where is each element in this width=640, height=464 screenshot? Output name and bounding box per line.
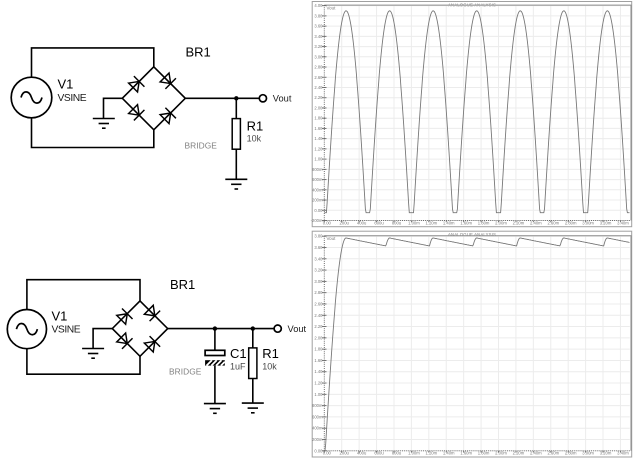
svg-text:2.60m: 2.60m: [547, 220, 559, 225]
voltage source V1 (circuit 2): [7, 310, 46, 349]
diode (BR1 bottom-right, anode bottom corner, cathode right corner) (circuit 2): [144, 336, 161, 353]
svg-text:1.20: 1.20: [314, 381, 323, 386]
svg-text:Vout: Vout: [288, 324, 307, 334]
wire: V1 bottom to bridge bottom corner (circuit 2): [27, 349, 140, 375]
svg-text:2.60: 2.60: [314, 301, 323, 306]
svg-text:2.20m: 2.20m: [513, 451, 525, 456]
svg-text:2.20: 2.20: [314, 324, 323, 329]
svg-text:3.20: 3.20: [314, 268, 323, 273]
svg-text:400u: 400u: [357, 220, 367, 225]
svg-text:1.20: 1.20: [314, 146, 323, 151]
svg-text:800m: 800m: [312, 403, 323, 408]
wire: junction down to C1 (circuit 2): [214, 329, 216, 350]
svg-text:1.80: 1.80: [314, 347, 323, 352]
svg-text:C1: C1: [230, 346, 247, 361]
svg-text:Vout: Vout: [327, 5, 337, 10]
svg-text:2.20m: 2.20m: [513, 220, 525, 225]
diode (BR1 bottom-left, anode left corner, cathode bottom corner) (circuit 1): [128, 104, 145, 121]
svg-text:3.60: 3.60: [314, 245, 323, 250]
bridge BR1 diamond wires (circuit 1): [122, 67, 185, 130]
svg-text:800u: 800u: [392, 451, 402, 456]
y-axis (graph 1): [323, 5, 325, 221]
axis ticks (graph 1): [322, 6, 621, 223]
svg-text:1.40m: 1.40m: [443, 451, 455, 456]
trace Vout curve (graph 1): [324, 11, 629, 213]
svg-text:2.60m: 2.60m: [547, 451, 559, 456]
capacitor C1 top plate (circuit 2): [205, 350, 225, 355]
svg-text:1.40: 1.40: [314, 136, 323, 141]
svg-text:3.20m: 3.20m: [600, 220, 612, 225]
svg-text:3.80: 3.80: [314, 13, 323, 18]
svg-text:V1: V1: [58, 77, 74, 92]
voltage source V1 (circuit 1): [11, 77, 52, 118]
svg-text:2.40m: 2.40m: [530, 451, 542, 456]
junction node at R1 (circuit 1): [234, 96, 238, 100]
svg-text:10k: 10k: [247, 134, 262, 144]
bridge BR1 diamond wires (circuit 2): [112, 301, 167, 356]
svg-text:BR1: BR1: [170, 277, 195, 292]
svg-text:0.00: 0.00: [323, 451, 332, 456]
ground symbol below R1 (circuit 2): [242, 403, 264, 413]
svg-text:2.40: 2.40: [314, 313, 323, 318]
svg-text:1.00: 1.00: [314, 157, 323, 162]
svg-text:200u: 200u: [340, 451, 350, 456]
svg-text:R1: R1: [247, 119, 264, 134]
y-axis (graph 2): [323, 236, 325, 452]
svg-text:R1: R1: [262, 346, 279, 361]
graph grid (graph 2): [324, 236, 630, 451]
terminal Vout (circuit 2): [274, 325, 281, 332]
wire: bridge left corner to ground (circuit 2): [93, 329, 112, 349]
wire: bridge right corner to Vout terminal (circuit 2): [168, 328, 274, 330]
diode (BR1 bottom-right, anode bottom corner, cathode right corner) (circuit 1): [159, 108, 176, 125]
svg-text:3.40m: 3.40m: [617, 220, 629, 225]
svg-text:1.20m: 1.20m: [425, 451, 437, 456]
plot area border (graph 2): [324, 236, 631, 451]
svg-text:200u: 200u: [340, 220, 350, 225]
x-axis labels (graph 2): [323, 451, 630, 456]
svg-text:3.60: 3.60: [314, 24, 323, 29]
svg-text:1.40m: 1.40m: [443, 220, 455, 225]
graph window frame (graph 1): [312, 2, 632, 227]
plot area border (graph 1): [324, 5, 631, 220]
svg-text:1.80m: 1.80m: [478, 451, 490, 456]
ground symbol near bridge (circuit 1): [93, 119, 115, 129]
svg-text:400m: 400m: [312, 187, 323, 192]
svg-text:3.40m: 3.40m: [617, 451, 629, 456]
svg-text:3.40: 3.40: [314, 256, 323, 261]
svg-text:3.20m: 3.20m: [600, 451, 612, 456]
svg-text:10k: 10k: [262, 362, 277, 372]
svg-text:200m: 200m: [312, 437, 323, 442]
junction node at C1 (circuit 2): [213, 326, 217, 330]
svg-text:3.00m: 3.00m: [582, 451, 594, 456]
wire: junction down to R1 (circuit 2): [252, 329, 254, 348]
svg-text:800m: 800m: [312, 167, 323, 172]
junction node at R1 (circuit 2): [251, 326, 255, 330]
wire: V1 top to bridge top corner (circuit 1): [32, 48, 154, 78]
svg-text:2.80m: 2.80m: [565, 220, 577, 225]
svg-text:4.00: 4.00: [314, 3, 323, 8]
diode (BR1 top-right, anode top corner, cathode right corner) (circuit 2): [144, 305, 161, 322]
svg-text:Vout: Vout: [327, 236, 337, 241]
svg-text:3.00m: 3.00m: [582, 220, 594, 225]
x-axis labels (graph 1): [323, 220, 630, 225]
y-axis labels (graph 2): [312, 234, 323, 454]
ground symbol below R1 (circuit 1): [225, 179, 247, 189]
svg-text:VSINE: VSINE: [58, 93, 87, 104]
svg-text:2.00m: 2.00m: [495, 220, 507, 225]
svg-text:2.40m: 2.40m: [530, 220, 542, 225]
diode (BR1 top-right, anode top corner, cathode right corner) (circuit 1): [159, 72, 176, 89]
y-axis labels (graph 1): [311, 3, 324, 223]
svg-text:600u: 600u: [374, 451, 384, 456]
svg-text:800u: 800u: [392, 220, 402, 225]
resistor R1 (circuit 2): [249, 348, 257, 379]
resistor R1 (circuit 1): [232, 119, 240, 150]
svg-text:1.80m: 1.80m: [478, 220, 490, 225]
diode (BR1 bottom-left, anode left corner, cathode bottom corner) (circuit 2): [116, 332, 133, 349]
svg-text:400u: 400u: [357, 451, 367, 456]
svg-text:2.80: 2.80: [314, 65, 323, 70]
diode (BR1 top-left, anode left corner, cathode top corner) (circuit 1): [128, 76, 145, 93]
svg-text:2.80: 2.80: [314, 290, 323, 295]
svg-text:600m: 600m: [312, 177, 323, 182]
wire: junction down to R1 (circuit 1): [235, 98, 237, 118]
svg-text:2.00: 2.00: [314, 105, 323, 110]
svg-text:1.80: 1.80: [314, 116, 323, 121]
svg-text:3.00: 3.00: [314, 54, 323, 59]
svg-text:0.00: 0.00: [314, 208, 323, 213]
svg-text:1.00m: 1.00m: [408, 451, 420, 456]
svg-text:1.40: 1.40: [314, 369, 323, 374]
svg-text:2.20: 2.20: [314, 95, 323, 100]
capacitor C1 bottom plate, hatched (circuit 2): [205, 360, 225, 365]
wire: bridge left corner to ground (circuit 1): [104, 98, 123, 118]
svg-text:400m: 400m: [312, 426, 323, 431]
svg-text:600m: 600m: [312, 414, 323, 419]
svg-text:1.20m: 1.20m: [425, 220, 437, 225]
svg-text:2.80m: 2.80m: [565, 451, 577, 456]
graph window frame (graph 2): [312, 231, 632, 457]
svg-text:0.00: 0.00: [323, 220, 332, 225]
svg-text:1.60: 1.60: [314, 126, 323, 131]
svg-text:1uF: 1uF: [230, 362, 246, 372]
wire: R1 bottom to ground (circuit 2): [252, 379, 254, 404]
svg-text:3.40: 3.40: [314, 34, 323, 39]
svg-text:2.60: 2.60: [314, 75, 323, 80]
ground symbol near bridge (circuit 2): [82, 349, 104, 359]
svg-text:3.80: 3.80: [314, 234, 323, 239]
wire: R1 bottom to ground (circuit 1): [235, 149, 237, 179]
trace Vout curve (graph 2): [324, 238, 629, 451]
diode (BR1 top-left, anode left corner, cathode top corner) (circuit 2): [116, 308, 133, 325]
svg-text:BR1: BR1: [186, 45, 211, 60]
svg-text:VSINE: VSINE: [52, 325, 81, 336]
wire: V1 bottom to bridge bottom corner (circuit 1): [32, 118, 154, 148]
wire: bridge right corner to Vout terminal (circuit 1): [185, 97, 259, 99]
wire: V1 top to bridge top corner (circuit 2): [27, 280, 140, 310]
graph grid (graph 1): [324, 6, 630, 221]
svg-text:Vout: Vout: [273, 94, 292, 104]
svg-text:2.00m: 2.00m: [495, 451, 507, 456]
svg-text:BRIDGE: BRIDGE: [185, 141, 218, 151]
ground symbol below C1 (circuit 2): [204, 404, 226, 414]
svg-text:1.60: 1.60: [314, 358, 323, 363]
wire: C1 bottom to ground (circuit 2): [214, 366, 216, 404]
svg-text:V1: V1: [52, 309, 68, 324]
svg-text:200m: 200m: [312, 198, 323, 203]
svg-text:3.20: 3.20: [314, 44, 323, 49]
x-axis (graph 2): [324, 450, 630, 452]
svg-text:BRIDGE: BRIDGE: [169, 367, 202, 377]
svg-text:1.00m: 1.00m: [408, 220, 420, 225]
svg-text:2.40: 2.40: [314, 85, 323, 90]
svg-text:600u: 600u: [374, 220, 384, 225]
axis ticks (graph 2): [322, 236, 621, 452]
svg-text:1.60m: 1.60m: [460, 451, 472, 456]
svg-text:-200m: -200m: [311, 218, 323, 223]
svg-text:1.60m: 1.60m: [460, 220, 472, 225]
x-axis (graph 1): [324, 220, 630, 222]
svg-text:2.00: 2.00: [314, 335, 323, 340]
terminal Vout (circuit 1): [259, 95, 266, 102]
svg-text:1.00: 1.00: [314, 392, 323, 397]
svg-text:3.00: 3.00: [314, 279, 323, 284]
